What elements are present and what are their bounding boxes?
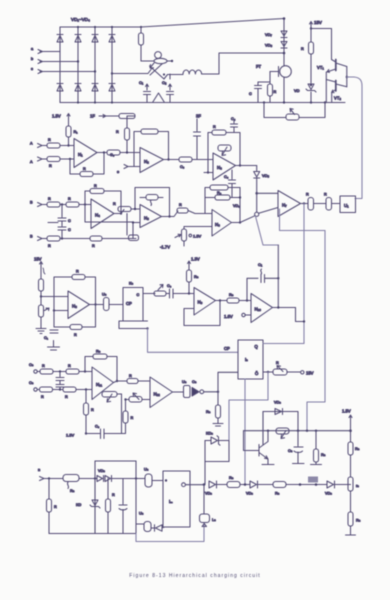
node C11 right — [277, 277, 279, 279]
svg-text:Ō: Ō — [255, 371, 259, 376]
wire VT3 emitter ground — [262, 459, 274, 465]
IC U7 box — [163, 471, 190, 527]
svg-text:R: R — [179, 203, 182, 207]
node cap column top — [61, 203, 63, 205]
capacitor C1 — [144, 92, 151, 103]
wire VT3 collector — [263, 412, 268, 446]
wire output right rail — [347, 77, 362, 199]
potentiometer R29 — [154, 285, 166, 297]
wire R23 R24 — [314, 203, 327, 205]
wire clock path to FF2 — [148, 329, 239, 353]
wire S to FF2 — [218, 372, 238, 392]
resistor R50 — [348, 512, 361, 526]
wire in- bias down — [85, 390, 87, 404]
potentiometer RP1 — [286, 109, 299, 121]
svg-text:Cₕ: Cₕ — [29, 363, 34, 367]
svg-text:VDₕ: VDₕ — [274, 401, 281, 405]
zener KD2 — [205, 432, 229, 446]
supply 15V (N8) — [34, 257, 43, 268]
wire N8 in- — [54, 310, 68, 312]
svg-text:c: c — [31, 67, 33, 71]
wire to FF1 — [109, 304, 123, 306]
wire N8 out — [90, 304, 104, 306]
capacitor C10 (series) — [166, 284, 189, 298]
wire R24 to driver — [332, 203, 341, 205]
svg-text:FT: FT — [256, 64, 262, 69]
svg-text:Iₘ: Iₘ — [169, 499, 173, 504]
diode VD2 — [75, 35, 81, 43]
node leg4 tap — [111, 72, 113, 74]
svg-text:N₁₁: N₁₁ — [96, 382, 103, 387]
svg-text:N₇: N₇ — [282, 203, 287, 208]
sampling loop wire — [264, 103, 286, 118]
node N1 in+ — [67, 144, 69, 146]
node top right rail — [349, 429, 352, 432]
contactor blade 2 — [150, 64, 163, 76]
svg-text:-1.7V: -1.7V — [160, 245, 170, 250]
node contactor out — [171, 60, 173, 62]
resistor R45 — [227, 476, 240, 488]
terminal C in2 — [29, 381, 37, 391]
svg-text:R: R — [91, 408, 94, 412]
node N4 out — [120, 212, 122, 214]
svg-text:VD₁~VD₄: VD₁~VD₄ — [71, 17, 90, 22]
svg-text:R: R — [48, 197, 51, 201]
wire bubble to N7 in- — [259, 208, 278, 214]
diode VD3 — [92, 35, 98, 43]
svg-text:1.5V: 1.5V — [193, 234, 202, 239]
svg-text:R: R — [74, 333, 77, 337]
potentiometer RP3 bias — [175, 227, 212, 247]
wire diodes to U pill — [112, 478, 146, 480]
node 15V branch — [310, 27, 312, 29]
svg-text:U₁: U₁ — [344, 203, 349, 208]
wire RP7 left down — [125, 400, 127, 412]
svg-text:15V: 15V — [314, 20, 322, 25]
op-amp N1 — [74, 139, 97, 168]
wire bridge leg 2 — [77, 27, 79, 103]
resistor R20 — [177, 203, 212, 214]
wire N3 out — [236, 165, 257, 167]
node frame cross — [135, 477, 137, 479]
terminal 1.6V — [224, 313, 251, 319]
contactor blade — [150, 66, 165, 79]
svg-text:R: R — [41, 395, 44, 399]
ground (N8) — [36, 329, 46, 334]
capacitor C2 — [167, 74, 174, 103]
diac U8 pill — [136, 512, 151, 532]
svg-text:R: R — [306, 193, 309, 197]
capacitor C4b (N3 lower) — [224, 170, 236, 198]
wire RP4 to ground — [40, 317, 42, 328]
svg-text:rₕ: rₕ — [356, 484, 359, 488]
driver box U4 — [340, 196, 356, 213]
resistor R25 — [39, 279, 44, 291]
wire rail left leg — [244, 431, 260, 451]
resistor R33 — [53, 364, 92, 374]
resistor R17 — [60, 236, 133, 248]
flip-flop U6 box — [238, 340, 263, 379]
svg-text:N₁: N₁ — [78, 152, 83, 157]
wire N7 out — [301, 203, 309, 205]
svg-text:C₁: C₁ — [44, 336, 49, 340]
capacitor C3 (gate) — [249, 82, 262, 103]
resistor R40 — [206, 405, 221, 418]
svg-text:R: R — [301, 47, 304, 51]
mosfet FT body — [280, 66, 292, 78]
svg-text:R: R — [113, 202, 116, 206]
capacitor C1 label arrow — [139, 80, 149, 90]
svg-text:N₂: N₂ — [144, 159, 149, 164]
capacitor C6 — [58, 205, 71, 224]
node N3 in- — [207, 171, 209, 173]
svg-text:C₁: C₁ — [139, 80, 144, 85]
supply 1.3V — [188, 257, 200, 267]
op-amp N5 — [140, 205, 162, 228]
svg-text:R: R — [68, 197, 71, 201]
svg-text:VDₕ: VDₕ — [98, 469, 105, 473]
phase input a — [31, 47, 60, 54]
node osc in — [48, 477, 50, 479]
resistor R16 — [41, 236, 60, 248]
wire N9 in- loop — [184, 301, 220, 326]
wire 1.3V to R — [188, 267, 190, 271]
wire contactor left link — [141, 60, 154, 62]
node S branch — [217, 391, 219, 393]
capacitor C15 — [288, 431, 304, 464]
resistor R9 (top) — [105, 114, 135, 119]
resistor R21 (N6 fb upper) — [205, 185, 240, 214]
wire R5 to N1 — [60, 145, 74, 147]
wire R10 to N2 in — [126, 140, 128, 153]
svg-text:R₀: R₀ — [217, 191, 222, 195]
resistor R43 — [106, 479, 116, 534]
svg-text:R: R — [129, 374, 132, 378]
IC U5 box — [123, 282, 143, 322]
svg-text:B: B — [30, 201, 33, 205]
supply 1.5V arrow — [52, 114, 70, 120]
resistor R28 (vertical pill on wire) — [102, 293, 109, 311]
svg-text:Figure 8-13 Hierarchical char: Figure 8-13 Hierarchical charging circui… — [129, 573, 260, 579]
node N8 out — [94, 303, 96, 305]
zener KD2 loop left — [204, 441, 206, 485]
svg-text:C₆: C₆ — [167, 284, 172, 288]
diode VD1 — [57, 35, 63, 43]
node leg2 phase — [77, 60, 79, 62]
wire blade to L — [164, 75, 183, 80]
svg-text:3F: 3F — [196, 114, 201, 119]
wire N4out sense drop — [126, 214, 128, 236]
capacitor C4 (input, vertical) — [194, 114, 202, 160]
svg-text:N₉: N₉ — [198, 300, 203, 305]
svg-text:Uₕ: Uₕ — [144, 468, 149, 472]
IC input pin dot — [165, 479, 167, 481]
mosfet FT gate — [256, 64, 279, 77]
svg-text:Rₕ: Rₕ — [70, 489, 75, 493]
node N10 out fb — [277, 306, 279, 308]
node collector join — [346, 76, 348, 78]
wire N7 in- branch down — [280, 209, 326, 231]
op-amp N12 — [150, 377, 173, 408]
svg-text:1.3V: 1.3V — [191, 257, 200, 262]
wire VT2 emitter to rail — [331, 93, 333, 103]
diode VD14 — [205, 481, 217, 496]
potentiometer RP5 — [273, 361, 287, 375]
node N11 in- — [85, 388, 87, 390]
wire Qbar pin — [263, 371, 273, 373]
phase input b — [31, 57, 78, 64]
wire R4 to N1 input — [68, 137, 70, 146]
svg-text:Cₕ: Cₕ — [192, 380, 197, 384]
node bus top — [283, 17, 286, 20]
wire N11 out — [114, 381, 128, 383]
svg-text:N₄: N₄ — [95, 213, 100, 218]
diode VD8 — [265, 42, 287, 49]
terminal A2 — [30, 157, 42, 164]
node N1 in- — [69, 158, 71, 160]
svg-text:R: R — [49, 164, 52, 168]
op-amp N2 — [140, 148, 164, 173]
wire to N9 — [189, 293, 194, 295]
resistor R46 — [273, 482, 286, 496]
svg-text:1.5V: 1.5V — [342, 409, 351, 414]
capacitor C7 — [58, 221, 71, 239]
svg-text:KDₕ: KDₕ — [206, 432, 213, 436]
supply 15V (bottom right) — [342, 409, 352, 422]
svg-text:VDₕ: VDₕ — [246, 492, 253, 496]
resistor R30 — [187, 270, 199, 282]
svg-text:A: A — [30, 142, 33, 146]
potentiometer RP2 — [218, 145, 231, 156]
wire N2 feedback loop — [134, 132, 141, 167]
node N6 fb joint — [239, 196, 241, 198]
wire N1 feedback — [93, 153, 104, 175]
svg-text:a: a — [31, 47, 34, 51]
wire VD15 to R46 — [258, 484, 274, 486]
svg-text:VDₕ: VDₕ — [325, 492, 332, 496]
svg-text:VD₇: VD₇ — [265, 32, 273, 37]
wire gate RC top — [258, 72, 270, 83]
svg-text:Rₕ: Rₕ — [229, 476, 234, 480]
diode D13 (left point) — [151, 525, 165, 531]
diode VD16 — [325, 481, 335, 496]
wire N3 feedback left — [208, 133, 212, 173]
earth cone symbol — [150, 93, 168, 103]
resistor R41 (pill with tail) — [63, 475, 79, 494]
wire N11 fb — [85, 357, 93, 372]
wire R1 to contactor — [140, 45, 142, 61]
wire top tap down — [126, 116, 128, 128]
resistor R32 — [37, 364, 53, 374]
diode VD15 — [246, 481, 258, 496]
wire line A (N7 out to FF Q) — [303, 204, 305, 344]
terminal C3 in — [110, 153, 140, 174]
svg-text:N₁₂: N₁₂ — [154, 392, 161, 397]
wire zener to rail — [310, 92, 312, 103]
svg-text:VD₆: VD₆ — [233, 204, 240, 208]
node N1 out — [103, 151, 105, 153]
svg-text:n: n — [38, 468, 40, 472]
wire collector bracket — [346, 67, 348, 87]
op-amp N3 — [204, 153, 236, 180]
wire R30 to node — [188, 282, 190, 294]
terminal 15V out — [301, 371, 314, 376]
wire leg4 to contactor — [112, 68, 152, 74]
node N5 out — [168, 215, 170, 217]
svg-text:o: o — [117, 170, 119, 174]
resistor R37 — [84, 403, 95, 415]
svg-text:R: R — [116, 130, 119, 134]
capacitor C8 (N5 feedback) — [140, 195, 163, 206]
wire bubble down diagonal — [256, 216, 279, 245]
ground (R40) — [213, 418, 223, 426]
svg-text:VDₕ: VDₕ — [205, 492, 212, 496]
svg-text:VT₁: VT₁ — [317, 65, 324, 70]
diode VD7 — [265, 31, 287, 38]
svg-text:15V: 15V — [306, 371, 314, 376]
wire N6 fb right — [239, 188, 241, 223]
node rail joints — [267, 430, 317, 432]
buffer U3 — [182, 380, 197, 398]
svg-text:1F: 1F — [90, 114, 95, 119]
resistor R47 — [311, 431, 326, 465]
svg-text:R: R — [324, 193, 327, 197]
svg-text:Rₕ: Rₕ — [229, 293, 234, 297]
svg-text:C: C — [137, 293, 140, 297]
resistor R34 — [37, 387, 52, 399]
node N8 in- — [53, 309, 55, 311]
svg-text:R₁: R₁ — [74, 130, 79, 134]
mosfet FT channel — [283, 63, 285, 103]
node leg3 phase — [94, 70, 96, 72]
svg-text:Rₕ: Rₕ — [206, 410, 211, 414]
svg-text:N₃: N₃ — [217, 165, 222, 170]
resistor R23 — [306, 193, 314, 211]
svg-text:C: C — [249, 92, 252, 96]
wire N4 out — [114, 210, 124, 214]
wire R25 to RP — [40, 291, 42, 305]
svg-text:R: R — [276, 361, 279, 365]
osc right vertical — [135, 461, 137, 534]
transistor VT1 — [317, 60, 347, 73]
wire N8 fb bottom — [54, 311, 70, 328]
wire FF1 out — [143, 293, 155, 295]
node 1.5V rail — [85, 432, 87, 434]
svg-text:Rₕ: Rₕ — [275, 492, 280, 496]
wire N8 fb top — [54, 277, 72, 311]
svg-text:C₅: C₅ — [180, 165, 185, 169]
resistor R15 — [60, 197, 91, 207]
resistor R35 — [53, 387, 93, 399]
terminal input n — [38, 468, 63, 481]
svg-text:KD: KD — [76, 503, 82, 507]
node RP7 left — [124, 398, 126, 400]
node N2 out — [167, 158, 169, 160]
terminal B1 — [30, 201, 42, 207]
svg-text:N₆: N₆ — [215, 222, 220, 227]
contactor KM coil circle — [155, 52, 162, 59]
wire supply down — [350, 421, 352, 442]
wire L to bus — [202, 53, 284, 74]
wire N12 out — [173, 391, 184, 393]
diode VD11 — [97, 476, 104, 482]
svg-text:C: C — [68, 228, 71, 232]
node line A join — [303, 320, 305, 322]
node bus mid — [283, 52, 286, 55]
node row mid — [244, 483, 247, 486]
node N4 in+ — [84, 203, 86, 205]
resistor R44 (series to IC) — [144, 468, 152, 488]
resistor R24 — [324, 193, 332, 211]
resistor R12 (N2 out) — [164, 157, 214, 169]
wire N5 feedback outer — [135, 188, 170, 217]
contactor KM contact ellipse — [154, 58, 167, 63]
diode lower 3 — [92, 84, 98, 92]
resistor R38 (N12 in) — [127, 374, 150, 384]
node N5 fb tap — [134, 208, 136, 210]
wire S to R down — [217, 392, 219, 405]
svg-text:Cₕ: Cₕ — [288, 449, 293, 453]
potentiometer RP7 — [126, 393, 151, 402]
resistor R3 — [301, 42, 314, 54]
svg-text:Lₕ: Lₕ — [212, 518, 216, 522]
svg-text:Rₕ: Rₕ — [321, 453, 326, 457]
terminal B2 — [30, 235, 42, 241]
wire bridge leg 3 — [94, 27, 96, 103]
wire N4 feedback — [85, 191, 90, 205]
osc top rail — [95, 460, 136, 462]
node Qbar branch — [267, 371, 269, 373]
wire 15V to R — [40, 267, 42, 279]
wire 15V down — [310, 27, 312, 42]
wire R3 to zener — [310, 54, 312, 83]
wire 15V to VT1 — [311, 29, 332, 60]
resistor R1 (vertical) — [139, 33, 144, 45]
wire column low — [350, 491, 352, 512]
op-amp N9 — [194, 288, 216, 316]
potentiometer RP6 (below N11) — [102, 392, 122, 403]
wire N10 out to line A — [296, 308, 305, 322]
potentiometer RP8 — [276, 428, 289, 439]
node N9 out — [219, 299, 221, 301]
svg-text:CP: CP — [126, 301, 132, 306]
svg-text:15V: 15V — [34, 257, 42, 262]
supply +15V — [310, 20, 322, 27]
svg-text:R: R — [42, 364, 45, 368]
node N10 fb tap — [246, 299, 248, 301]
svg-text:C₂: C₂ — [162, 80, 167, 85]
IC output bubble — [182, 483, 186, 487]
resistor R42 (left leg) — [47, 479, 58, 534]
node zener base link — [310, 84, 312, 86]
phase input c — [31, 67, 95, 74]
wire RP5 to terminal — [287, 371, 301, 373]
wire top DC rail — [60, 19, 284, 28]
wire R45 to node — [240, 484, 250, 486]
node row right2 — [315, 483, 318, 486]
wire zener loop right — [228, 441, 230, 462]
node N11 in+ — [84, 370, 86, 372]
wire R31 to N10 — [239, 300, 251, 302]
diode D with bubble — [192, 388, 204, 397]
wire loop right — [299, 103, 325, 118]
wire contactor right stub — [167, 60, 172, 62]
resistor R19 — [113, 202, 140, 212]
supply tap 1F arrow — [90, 114, 106, 119]
label box small — [308, 477, 318, 483]
node mid column top — [59, 370, 61, 372]
wire bridge leg 1 — [59, 27, 61, 103]
